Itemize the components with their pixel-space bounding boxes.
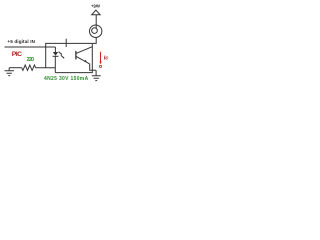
- load outer circle: [90, 25, 102, 37]
- phototransistor Q1 emitter: [76, 57, 89, 64]
- light arrow 2: [61, 55, 64, 58]
- svg-text:4N25 30V 150mA: 4N25 30V 150mA: [44, 76, 89, 82]
- wire +5 input: [5, 46, 56, 48]
- wire emitter to ground: [90, 64, 96, 70]
- svg-text:PIC: PIC: [12, 51, 22, 58]
- ground GND2: [92, 70, 101, 80]
- pin tick on box top: [65, 39, 67, 47]
- Ic arrow terminal circle: [99, 65, 101, 67]
- LED D1 cathode bar: [53, 55, 59, 57]
- collector current arrow Ic: [100, 52, 102, 63]
- resistor R1 zigzag: [22, 65, 36, 70]
- phototransistor Q1 collector: [76, 47, 92, 54]
- svg-text:Ic: Ic: [104, 56, 110, 62]
- light arrow 1: [59, 52, 62, 55]
- LED D1 triangle: [53, 52, 58, 56]
- emitter arrowhead: [84, 60, 87, 62]
- svg-text:+5 digital IN: +5 digital IN: [7, 39, 35, 44]
- wire resistor to ground: [9, 67, 22, 69]
- wire load to box top: [92, 37, 96, 43]
- phototransistor Q1 base bar: [75, 51, 77, 60]
- optocoupler box outline: [46, 43, 93, 72]
- svg-text:+24V: +24V: [91, 4, 100, 9]
- +24V power arrow (open triangle): [92, 10, 100, 15]
- wire cathode to resistor: [36, 67, 56, 69]
- wire triangle to load: [95, 15, 97, 29]
- load inner circle: [92, 28, 98, 34]
- LED D1 cathode lead: [54, 56, 56, 72]
- svg-text:220: 220: [27, 57, 35, 63]
- LED D1 anode lead: [54, 47, 56, 52]
- ground GND1: [5, 68, 15, 76]
